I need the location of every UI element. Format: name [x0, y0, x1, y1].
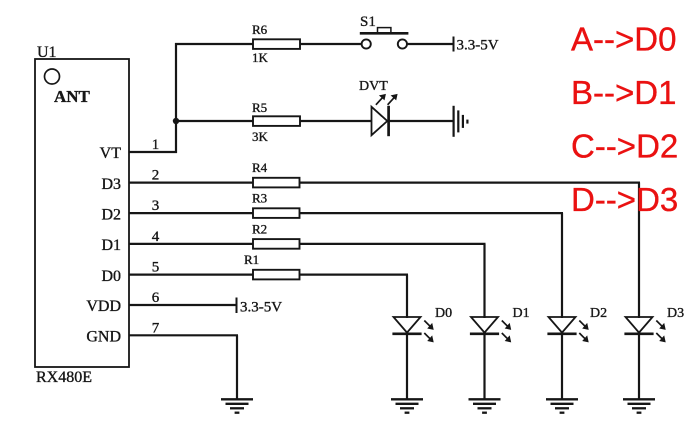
svg-text:R3: R3	[252, 191, 267, 206]
annotation C to D2 (red)	[571, 128, 678, 165]
svg-text:1: 1	[152, 137, 160, 153]
wire DVT to earth symbol	[390, 120, 453, 122]
LED D3 symbol (triangle, cathode bar, emission arrows)	[624, 317, 665, 342]
svg-text:4: 4	[152, 229, 160, 245]
resistor R6 value 1K	[252, 50, 269, 65]
wire U1 VDD pin to power tick	[129, 304, 237, 306]
annotation D to D3 (red)	[571, 181, 678, 218]
U1 pin number 2	[152, 168, 160, 184]
resistor R6 body	[253, 39, 300, 49]
resistor R2 label	[252, 221, 267, 236]
svg-text:7: 7	[152, 320, 160, 336]
LED D3 designator label	[667, 306, 684, 321]
svg-text:D0: D0	[101, 268, 121, 285]
svg-text:VT: VT	[100, 145, 122, 162]
resistor R3 body	[253, 208, 300, 218]
U1 pin label D2	[101, 206, 121, 223]
svg-text:C-->D2: C-->D2	[571, 128, 678, 165]
LED DVT label	[359, 79, 388, 94]
svg-text:3.3-5V: 3.3-5V	[240, 300, 282, 316]
svg-text:D0: D0	[435, 306, 452, 321]
svg-text:D2: D2	[101, 206, 121, 223]
power symbol 3.3-5V tick (VDD)	[236, 298, 238, 314]
svg-text:2: 2	[152, 168, 160, 184]
U1 antenna circle	[45, 69, 60, 84]
svg-text:3: 3	[152, 198, 160, 214]
LED D1 designator label	[513, 306, 530, 321]
LED D2 symbol (triangle, cathode bar, emission arrows)	[547, 317, 588, 342]
resistor R5 label	[252, 100, 267, 115]
wire R5 to LED DVT	[300, 120, 372, 122]
annotation A to D0 (red)	[571, 21, 676, 58]
ground symbol (U1 GND)	[221, 399, 253, 412]
IC U1 body (RX480E receiver module)	[35, 59, 129, 367]
wire LED D1 cathode to ground	[483, 334, 485, 399]
U1 pin label D3	[101, 176, 121, 193]
svg-text:D2: D2	[590, 306, 607, 321]
wire R2 to LED column D1	[300, 243, 486, 245]
U1 pin number 4	[152, 229, 160, 245]
svg-text:D1: D1	[513, 306, 530, 321]
svg-text:S1: S1	[360, 14, 376, 30]
power label 3.3-5V (VDD)	[240, 300, 282, 316]
U1 pin number 7	[152, 320, 160, 336]
U1 pin label VDD	[86, 298, 121, 315]
resistor R2 body	[253, 239, 300, 249]
svg-text:R6: R6	[252, 22, 268, 37]
wire bus to R6	[175, 43, 253, 45]
U1 pin number 5	[152, 260, 160, 276]
wire U1 GND pin vertical drop	[236, 335, 238, 399]
ground symbol (rotated, DVT branch)	[454, 106, 468, 137]
U1 reference designator label	[37, 44, 57, 61]
svg-text:1K: 1K	[252, 50, 269, 65]
svg-text:A-->D0: A-->D0	[571, 21, 676, 58]
svg-text:D1: D1	[101, 237, 121, 254]
svg-text:3K: 3K	[252, 129, 269, 144]
wire U1 GND pin horizontal	[129, 334, 238, 336]
switch S1 label	[360, 14, 376, 30]
svg-text:6: 6	[152, 290, 160, 306]
svg-text:5: 5	[152, 260, 160, 276]
wire U1 D1 pin to R2	[129, 243, 253, 245]
svg-text:3.3-5V: 3.3-5V	[457, 38, 499, 54]
resistor R5 body	[253, 116, 300, 126]
wire LED D3 cathode to ground	[638, 334, 640, 399]
U1 pin label GND	[86, 329, 121, 346]
wire VT node to R5	[176, 120, 253, 122]
svg-text:ANT: ANT	[54, 87, 91, 106]
svg-text:VDD: VDD	[86, 298, 121, 315]
svg-text:R5: R5	[252, 100, 267, 115]
resistor R4 body	[253, 178, 300, 188]
LED D2 designator label	[590, 306, 607, 321]
ground symbol (D1 ground)	[469, 399, 501, 412]
wire U1 D3 pin to R4	[129, 182, 253, 184]
svg-text:D3: D3	[101, 176, 121, 193]
annotation B to D1 (red)	[571, 74, 676, 111]
U1 pin label VT	[100, 145, 122, 162]
svg-text:R1: R1	[244, 252, 259, 267]
LED DVT symbol (triangle, cathode bar, emission arrows)	[372, 94, 398, 136]
resistor R5 value 3K	[252, 129, 269, 144]
svg-text:D3: D3	[667, 306, 684, 321]
resistor R6 label	[252, 22, 268, 37]
wire vertical drop to LED D1	[483, 244, 485, 318]
svg-text:U1: U1	[37, 44, 57, 61]
ground symbol (D2 ground)	[546, 399, 578, 412]
wire vertical drop to LED D2	[561, 213, 563, 318]
U1 pin label D0	[101, 268, 121, 285]
svg-text:RX480E: RX480E	[36, 369, 92, 386]
wire R1 to LED column D0	[300, 274, 409, 276]
resistor R1 body	[253, 270, 300, 280]
power label 3.3-5V (top)	[457, 38, 499, 54]
switch S1 contact circle right	[398, 39, 407, 48]
ground symbol (D3 ground)	[623, 399, 655, 412]
LED D0 symbol (triangle, cathode bar, emission arrows)	[392, 317, 433, 342]
switch S1 contact circle left	[362, 39, 371, 48]
LED D1 symbol (triangle, cathode bar, emission arrows)	[470, 317, 511, 342]
svg-text:R4: R4	[252, 160, 268, 175]
wire vertical bus VT node	[175, 43, 177, 153]
wire S1 to power tick	[407, 43, 453, 45]
wire R3 to LED column D2	[300, 212, 564, 214]
wire vertical drop to LED D3	[638, 183, 640, 318]
wire U1 D2 pin to R3	[129, 212, 253, 214]
U1 pin number 6	[152, 290, 160, 306]
junction dot VT node	[173, 118, 179, 124]
switch S1 button bump	[378, 28, 391, 33]
svg-text:GND: GND	[86, 329, 121, 346]
wire R6 to switch S1	[300, 43, 362, 45]
U1 part number RX480E	[36, 369, 92, 386]
LED D0 designator label	[435, 306, 452, 321]
svg-text:DVT: DVT	[359, 79, 388, 94]
ground symbol (D0 ground)	[391, 399, 423, 412]
resistor R3 label	[252, 191, 267, 206]
U1 ANT label	[54, 87, 91, 106]
wire LED D2 cathode to ground	[561, 334, 563, 399]
resistor R1 label	[244, 252, 259, 267]
power symbol 3.3-5V tick (top)	[453, 37, 455, 52]
wire R4 to LED column D3	[300, 182, 641, 184]
U1 pin number 1	[152, 137, 160, 153]
resistor R4 label	[252, 160, 268, 175]
svg-text:B-->D1: B-->D1	[571, 74, 676, 111]
U1 pin label D1	[101, 237, 121, 254]
svg-text:D-->D3: D-->D3	[571, 181, 678, 218]
svg-text:R2: R2	[252, 221, 267, 236]
wire U1 D0 pin to R1	[129, 274, 253, 276]
wire LED D0 cathode to ground	[406, 334, 408, 399]
switch S1 actuator bar	[360, 32, 409, 35]
wire vertical drop to LED D0	[406, 275, 408, 318]
wire pin1 VT to vertical bus	[129, 151, 177, 153]
U1 pin number 3	[152, 198, 160, 214]
